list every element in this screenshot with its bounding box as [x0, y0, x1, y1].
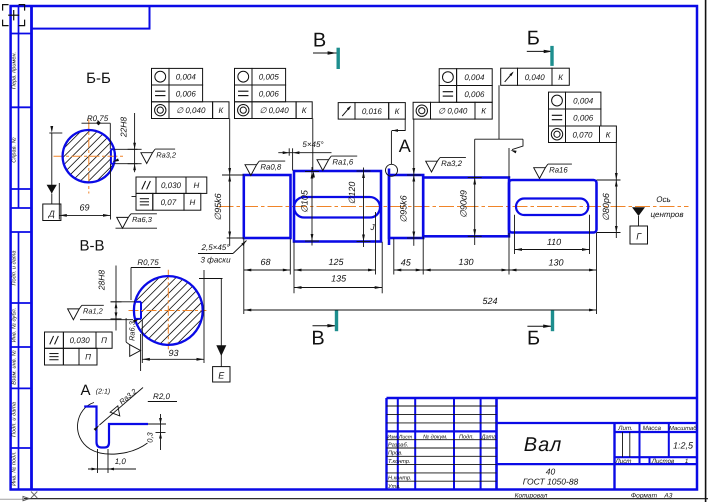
svg-text:0,3: 0,3 [146, 431, 155, 442]
svg-text:П: П [101, 336, 107, 345]
svg-text:Т.контр.: Т.контр. [388, 459, 411, 465]
svg-text:1: 1 [685, 458, 688, 465]
svg-text:А: А [399, 136, 411, 156]
svg-text:Справ. №: Справ. № [12, 137, 18, 162]
svg-text:Подп.: Подп. [459, 433, 474, 440]
svg-text:Ось: Ось [656, 195, 670, 204]
svg-text:∅105: ∅105 [300, 189, 310, 213]
svg-text:Изм.: Изм. [387, 434, 398, 440]
svg-text:Масса: Масса [643, 425, 662, 432]
svg-text:Д: Д [48, 209, 55, 219]
svg-text:130: 130 [548, 257, 563, 267]
svg-text:Е: Е [218, 371, 225, 381]
svg-text:R2,0: R2,0 [153, 392, 170, 401]
svg-text:R0,75: R0,75 [137, 258, 159, 267]
svg-text:135: 135 [331, 274, 347, 284]
svg-text:Б: Б [527, 27, 540, 49]
svg-text:В: В [313, 30, 326, 52]
svg-text:Подп. и дата: Подп. и дата [11, 250, 18, 285]
svg-text:П: П [85, 353, 91, 362]
svg-text:0,005: 0,005 [259, 73, 280, 82]
svg-text:22Н8: 22Н8 [119, 117, 129, 139]
svg-text:2,5×45°: 2,5×45° [201, 243, 231, 252]
svg-text:∅ 0,040: ∅ 0,040 [259, 106, 289, 115]
svg-text:∅80p6: ∅80p6 [601, 193, 611, 221]
svg-text:Взам. инв. №: Взам. инв. № [12, 350, 18, 385]
svg-text:Ra3,2: Ra3,2 [441, 159, 462, 168]
svg-text:Лист: Лист [615, 458, 632, 465]
svg-text:130: 130 [458, 257, 473, 267]
svg-text:∅ 0,040: ∅ 0,040 [438, 107, 468, 116]
svg-text:3 фаски: 3 фаски [200, 256, 231, 265]
svg-text:0,07: 0,07 [161, 198, 177, 207]
svg-text:Лист: Лист [398, 434, 413, 440]
svg-text:0,004: 0,004 [464, 73, 485, 82]
svg-text:∅120: ∅120 [347, 182, 357, 205]
svg-text:Инв. № подл.: Инв. № подл. [11, 451, 18, 486]
svg-text:Н.контр.: Н.контр. [388, 476, 412, 482]
svg-text:В: В [311, 328, 324, 350]
svg-text:0,006: 0,006 [259, 89, 280, 98]
svg-text:0,070: 0,070 [572, 130, 593, 139]
svg-text:J: J [369, 222, 375, 232]
svg-text:Масштаб: Масштаб [669, 425, 697, 432]
svg-text:0,040: 0,040 [525, 73, 546, 82]
svg-text:93: 93 [168, 348, 178, 358]
svg-text:28Н8: 28Н8 [97, 270, 107, 292]
svg-text:Ra3,2: Ra3,2 [156, 150, 176, 159]
svg-text:Дата: Дата [481, 434, 497, 440]
svg-text:∅95k6: ∅95k6 [213, 193, 223, 220]
svg-text:0,016: 0,016 [362, 107, 383, 116]
svg-text:Ra16: Ra16 [549, 165, 568, 174]
svg-text:№ докум.: № докум. [423, 433, 448, 440]
svg-text:1,0: 1,0 [115, 457, 127, 466]
svg-text:0,030: 0,030 [161, 181, 182, 190]
svg-text:69: 69 [79, 203, 89, 213]
svg-text:125: 125 [328, 257, 344, 267]
svg-text:∅95k6: ∅95k6 [399, 195, 409, 222]
svg-text:1:2,5: 1:2,5 [673, 441, 694, 451]
svg-text:45: 45 [401, 258, 412, 268]
svg-text:110: 110 [547, 237, 561, 247]
svg-text:центров: центров [650, 210, 683, 219]
svg-text:5×45°: 5×45° [302, 140, 324, 149]
svg-text:Копировал: Копировал [515, 493, 548, 500]
svg-text:А3: А3 [663, 493, 672, 500]
svg-text:68: 68 [260, 257, 270, 267]
svg-text:ГОСТ 1050-88: ГОСТ 1050-88 [523, 477, 579, 487]
svg-text:Н: Н [194, 181, 200, 190]
svg-text:0,006: 0,006 [176, 89, 197, 98]
svg-text:524: 524 [482, 296, 497, 306]
svg-text:(2:1): (2:1) [96, 388, 110, 396]
svg-text:Формат: Формат [631, 493, 658, 500]
svg-text:Разраб.: Разраб. [388, 441, 408, 448]
svg-text:Б-Б: Б-Б [86, 70, 111, 87]
svg-text:Утв.: Утв. [387, 484, 401, 490]
svg-text:40: 40 [546, 467, 556, 477]
svg-text:Ra6,3: Ra6,3 [132, 215, 153, 224]
svg-text:Инв. № дубл.: Инв. № дубл. [11, 308, 18, 342]
svg-text:0,006: 0,006 [573, 114, 594, 123]
svg-text:Ra6,3: Ra6,3 [127, 320, 136, 341]
svg-text:0,030: 0,030 [70, 336, 91, 345]
svg-text:Ra0,8: Ra0,8 [260, 162, 281, 171]
svg-text:Вал: Вал [524, 434, 563, 456]
svg-text:0,004: 0,004 [573, 97, 594, 106]
svg-text:А: А [80, 382, 90, 399]
svg-text:Пров.: Пров. [388, 451, 403, 457]
svg-text:∅90d9: ∅90d9 [459, 190, 469, 218]
svg-text:Ra1,2: Ra1,2 [83, 307, 103, 316]
svg-text:∅ 0,040: ∅ 0,040 [176, 106, 206, 115]
svg-text:Ra1,6: Ra1,6 [332, 157, 353, 166]
svg-text:Подп. и дата: Подп. и дата [11, 402, 18, 437]
svg-text:Листов: Листов [651, 458, 675, 465]
svg-text:Б: Б [527, 328, 540, 350]
svg-text:0,004: 0,004 [176, 73, 197, 82]
svg-text:0,006: 0,006 [464, 90, 485, 99]
svg-text:Перв. примен.: Перв. примен. [12, 52, 18, 89]
svg-text:В-В: В-В [79, 238, 104, 255]
svg-text:Н: Н [190, 198, 196, 207]
svg-text:Лит.: Лит. [617, 425, 633, 432]
